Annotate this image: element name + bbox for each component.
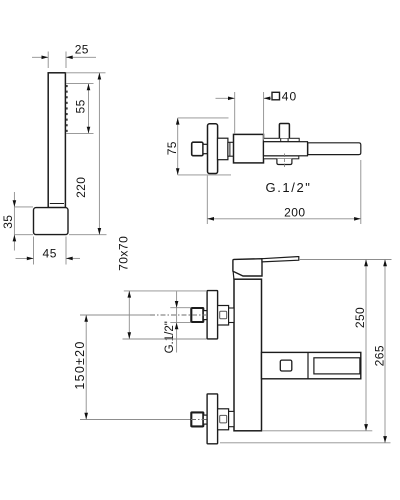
top step piece — [229, 308, 234, 323]
dim 55 extension lines — [66, 84, 94, 134]
svg-text:40: 40 — [282, 90, 297, 104]
side main body — [234, 134, 264, 163]
handle body — [48, 73, 65, 208]
top connection neck — [203, 311, 207, 320]
dim 250 arrows — [364, 260, 368, 431]
front spout outer — [262, 352, 361, 378]
svg-text:250: 250 — [353, 307, 367, 328]
dim 25 line — [32, 56, 96, 58]
front main body — [234, 279, 262, 431]
bottom connection dash centerline — [191, 419, 207, 421]
dim 25 extension lines — [48, 52, 66, 69]
lever handle body — [233, 259, 262, 276]
spray nozzle teeth — [66, 85, 68, 132]
svg-text:55: 55 — [74, 99, 88, 113]
dim 55 arrows — [87, 84, 91, 134]
svg-text:G.1/2": G.1/2" — [265, 180, 311, 195]
side adapter collar B — [228, 142, 234, 156]
dim 220 extension lines — [66, 73, 107, 235]
dim 200 extension lines — [207, 160, 360, 224]
dim 265 arrows — [383, 260, 387, 443]
lever neck segment — [232, 272, 235, 279]
dim 40 arrows — [228, 97, 270, 101]
side section bottom band — [264, 156, 299, 159]
dim 265 extension line — [220, 442, 391, 444]
dim 25 arrows — [42, 56, 73, 60]
top connection nut — [191, 308, 203, 322]
dim 265 line — [384, 260, 386, 443]
thread dim line — [176, 291, 178, 352]
bottom step piece — [229, 411, 234, 426]
svg-text:35: 35 — [1, 215, 15, 229]
dim 75 arrows — [176, 118, 180, 175]
bottom connector inner square — [220, 415, 227, 423]
side adapter collar B ridge — [229, 142, 231, 156]
dim 40 line — [216, 97, 272, 99]
side wall flange — [208, 124, 218, 174]
holder bracket — [34, 208, 69, 235]
dim 75 extension lines — [178, 118, 231, 175]
top wall flange (front) — [207, 291, 218, 339]
dim 35 arrows — [13, 200, 17, 241]
svg-text:200: 200 — [284, 206, 305, 220]
dim 40 extension lines — [235, 92, 264, 141]
svg-text:G.1/2": G.1/2" — [164, 321, 176, 353]
dim 45 arrows — [27, 257, 73, 261]
bottom connection nut — [191, 412, 203, 426]
top connection dash centerline — [150, 314, 207, 316]
lever arm — [262, 257, 299, 262]
side aerator centerline — [283, 154, 285, 168]
svg-text:45: 45 — [43, 246, 58, 260]
top connection centerline solid part — [80, 314, 150, 316]
svg-text:70x70: 70x70 — [117, 236, 131, 271]
dim 250 line — [365, 260, 367, 431]
svg-text:25: 25 — [75, 43, 89, 57]
dim 70x70 extension lines — [123, 291, 208, 339]
dim 70x70 line — [128, 291, 130, 339]
svg-text:150±20: 150±20 — [73, 340, 87, 389]
side section top band — [264, 138, 300, 141]
bottom connection centerline solid part — [80, 419, 191, 421]
side adapter piece A — [218, 138, 228, 160]
side knob — [192, 142, 203, 156]
svg-text:75: 75 — [165, 141, 179, 155]
dim 200 line — [207, 218, 360, 220]
front spout inner rect — [314, 358, 360, 374]
bottom connection neck — [203, 415, 207, 424]
handle bottom cap line — [50, 203, 64, 205]
top connector — [218, 306, 229, 326]
dim 75 line — [177, 118, 179, 175]
thread dim arrows — [175, 301, 179, 329]
bottom connector — [218, 409, 229, 430]
dim 150+-20 line — [85, 315, 87, 420]
top connector inner square — [220, 311, 227, 319]
dim 45 extension lines — [34, 237, 67, 265]
bottom wall flange (front) — [207, 394, 218, 444]
thread dim extension lines — [170, 308, 191, 323]
svg-text:265: 265 — [373, 345, 387, 366]
dim 220 arrows — [98, 73, 102, 235]
front spout divider — [307, 352, 309, 378]
dim 35 extension lines — [14, 207, 33, 235]
svg-text:220: 220 — [74, 177, 88, 198]
side diverter stem — [279, 124, 289, 139]
side knob neck — [203, 144, 208, 153]
side spout tube — [308, 143, 361, 155]
dim 220 line — [98, 73, 100, 235]
dim 45 line — [16, 257, 81, 259]
side diverter stem base lines — [281, 138, 288, 141]
dim 35 line — [13, 192, 15, 251]
front spout small square — [280, 360, 292, 371]
dim 40 square symbol — [272, 92, 280, 100]
side section — [264, 142, 308, 156]
dim 150+-20 arrows — [84, 315, 88, 420]
dim 55 line — [88, 84, 90, 134]
dim 250 extension lines — [263, 260, 392, 431]
dim 200 arrows — [207, 217, 360, 221]
side aerator — [277, 159, 292, 165]
dim 70x70 arrows — [128, 291, 132, 339]
